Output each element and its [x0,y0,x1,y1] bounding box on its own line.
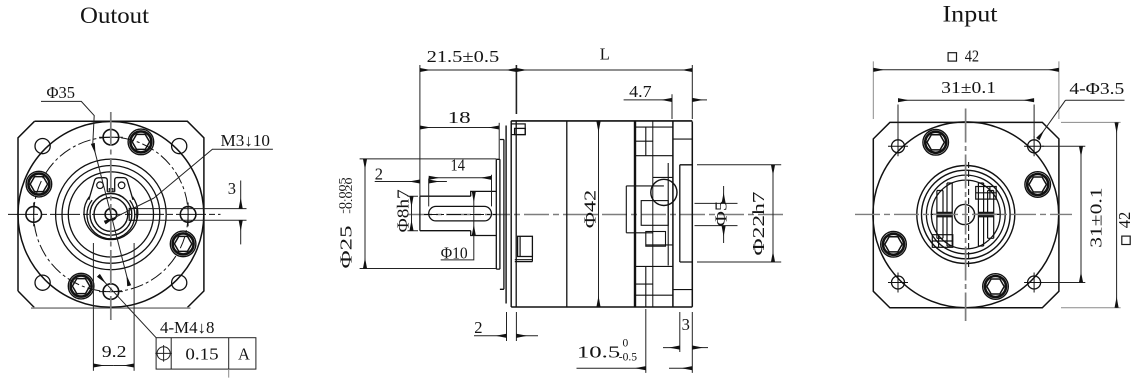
svg-text:-0.020: -0.020 [344,177,354,214]
block horizontals [937,212,994,216]
tolerance frame [156,338,256,369]
corner hole TL [35,139,50,154]
circle r48.9 [62,166,160,264]
svg-text:Φ22h7: Φ22h7 [749,192,768,256]
circlip ear hole left [97,182,104,189]
dim 31 right line [1080,146,1082,282]
internal vertical 652.8 [652,122,654,307]
hex screw right-upper [1025,172,1051,198]
circle d25 boss [56,159,167,270]
corner hole TR [172,139,187,154]
dim phi22h7 ext [697,165,781,262]
svg-text:Φ8h7: Φ8h7 [394,189,413,232]
label 31 top [941,78,996,97]
M4 hole top [103,129,119,145]
bottom notch [518,236,533,256]
hex screw top-left [923,130,949,156]
label 31 right rotated [1087,188,1106,248]
dim 14 line [429,177,492,179]
coupling top line [626,186,664,233]
circle r39.4 [926,175,1005,254]
label sq42 top [948,46,979,65]
circlip inner arc [87,200,135,239]
svg-text:Φ42: Φ42 [580,190,599,228]
svg-text:31±0.1: 31±0.1 [941,78,996,97]
body circle [873,122,1059,308]
hex screw TR [128,129,154,155]
M4 hole right [180,207,196,223]
dashed gear line vertical [968,162,970,267]
label phi35 [47,83,76,102]
dim 3 line [663,347,680,349]
dim 21.5 ext left / shaft end line [419,65,421,196]
dim phi8h7 line [411,196,413,231]
vertical centerline [110,112,112,320]
dim sq42 top ext [873,61,1059,119]
label A [238,344,250,363]
label phi8h7 rotated [394,189,413,232]
section divider 3 [645,127,647,307]
bottom-left box [932,235,953,248]
svg-text:Input: Input [943,2,999,27]
svg-text:18: 18 [448,108,471,127]
rear flange left face [672,122,674,307]
bearing circle r44.3 [922,170,1011,259]
dim 4-phi3.5 leader [1066,99,1125,101]
dim 2 top: ext [428,179,430,207]
boss circle r49 [917,166,1015,264]
body circle [18,121,204,307]
circlip ear hole right [118,182,125,189]
svg-text:Φ35: Φ35 [47,83,76,102]
dim 2 bottom ext [507,312,517,341]
phi25 boss [496,159,500,269]
svg-text:A: A [238,344,250,363]
dim phi35 diameter line [93,143,129,285]
bolt circle dash-dot [34,137,188,291]
dim 31 top ext [898,105,1034,138]
front plate face [505,126,507,304]
horizontal centerline [855,213,1072,215]
flange bottom edge (gray) [31,307,191,309]
dim 10.5 ext [646,309,693,373]
dim phi5 line [723,186,725,203]
right view dimensions [873,46,1134,307]
coupling hub box [641,201,668,226]
dim 18 line [420,127,499,129]
svg-text:2: 2 [474,318,482,337]
center circle M3 [105,209,117,221]
svg-text:Φ10: Φ10 [441,244,468,263]
horizontal centerline [407,214,783,216]
svg-text:Φ25: Φ25 [337,226,356,269]
slot centerline [424,214,497,216]
label phi42 rotated [580,190,599,228]
dim phi25 line [364,159,366,269]
dim M3 leader [154,149,273,198]
label sq42 right rotated [1115,212,1134,245]
block dark squares [938,213,952,217]
input shaft hole [954,204,974,224]
svg-text:4-M4↓8: 4-M4↓8 [160,318,214,337]
dim phi22h7 line [772,165,774,262]
dim 31 top line [898,99,1034,101]
shaft collar [471,191,497,235]
corner hole TR [1024,136,1044,156]
position symbol [157,347,170,360]
internal vertical 668.2 [667,163,669,266]
corner hole BL [888,273,908,293]
shaft circle d8 [94,198,128,232]
top-right box [976,187,997,200]
svg-text:Φ5: Φ5 [712,201,731,227]
output shaft [420,196,471,231]
hex screw left-upper [26,171,52,197]
dim phi5 ext [695,203,738,225]
label 4-phi3.5 [1069,79,1124,98]
svg-text:42: 42 [965,46,979,65]
middle view dimensions [337,44,782,373]
svg-text:10.5: 10.5 [577,342,620,361]
label 9.2 [102,342,127,361]
label 0.15 [185,344,218,363]
label 14 [451,155,465,174]
dim L right ext [691,65,693,119]
dim 4.7 line [624,99,672,101]
svg-text:4.7: 4.7 [629,82,651,101]
circlip outer arc [84,197,138,240]
flange square outline [18,121,204,307]
hex screw left-lower [881,232,907,258]
dim 3 ext [679,312,681,352]
label 2 top [375,165,383,184]
dim 9.2 line [93,365,113,367]
title Outout [80,3,150,28]
label 3 [228,179,236,198]
svg-text:L: L [600,44,610,63]
front plate rear face [515,121,517,307]
dim 21.5 line [420,69,517,71]
left block verticals [937,183,952,246]
hex screw bottom-right [983,274,1009,300]
svg-text:9.2: 9.2 [102,342,127,361]
label 4-M4 [160,318,214,337]
dim 4-M4 leader [98,275,156,337]
label phi10 [441,244,468,263]
keyway rect right of center [129,208,137,220]
svg-text:3: 3 [228,179,236,198]
dim 9.2 extension lines [92,243,94,371]
circlip right ear [115,178,133,200]
dim 14 ext right [491,175,493,207]
corner hole TL [888,136,908,156]
top notch [511,124,525,135]
small box below hub [646,232,666,247]
dim phi42 line [598,122,600,307]
svg-text:3: 3 [682,315,690,334]
dim 10.5 line [577,367,646,369]
M4 hole left [26,207,42,223]
dim phi8h7 ext stubs [408,196,419,231]
dim 4.7 ext [671,94,673,119]
horizontal centerline [8,213,221,215]
dim 3 extension lines [137,208,246,210]
svg-text:21.5±0.5: 21.5±0.5 [427,47,500,66]
corner hole BR [1024,273,1044,293]
dim 3 line [240,181,242,209]
center horizontal black segments [931,213,1000,215]
title Input [943,2,999,27]
circlip notch [107,189,114,192]
label 2 bottom [474,318,482,337]
dim phi25 ext lines [360,159,497,269]
dim phi10 leader [441,236,474,260]
svg-text:42: 42 [1115,212,1134,229]
svg-text:0: 0 [623,338,629,350]
svg-text:M3↓10: M3↓10 [221,131,271,150]
flange corner lines [673,139,692,290]
circle d10 [90,194,132,236]
flange square outline [873,122,1059,307]
svg-text:Outout: Outout [80,3,150,28]
dim 21.5/L shared ext [515,65,517,114]
right block verticals [978,183,993,246]
M4 hole bottom [103,284,119,300]
dim 18 ext right [498,123,500,159]
vertical centerline [965,109,967,322]
label 18 [448,108,471,127]
keyway slot [429,206,492,221]
label 10.5 [577,338,637,364]
body outline [511,121,692,307]
plate body joint [510,121,512,307]
dim 2 bottom line [474,335,507,337]
svg-text:31±0.1: 31±0.1 [1087,188,1106,248]
label phi22h7 rotated [749,192,768,256]
dim 31 right ext [1042,146,1085,282]
label phi25 rotated [337,226,356,269]
svg-text:2: 2 [375,165,383,184]
clamp screw circle [651,179,677,205]
label L [600,44,610,63]
dim sq42 top line [873,69,1059,71]
section divider 2 [634,122,636,307]
dim 2 top line [375,181,420,183]
hex screw bottom-left [68,273,94,299]
svg-text:0.15: 0.15 [185,344,218,363]
hex screw right-lower [170,231,196,257]
label phi5 rotated [712,201,731,227]
dim sq42 right ext [1061,122,1121,307]
rear flange right face [691,122,693,307]
dim L line [516,69,692,71]
label 21.5 [427,47,500,66]
circle r34.4 [931,180,1000,249]
svg-text:4-Φ3.5: 4-Φ3.5 [1069,79,1124,98]
intermediate ring [500,140,504,290]
input boss phi22 [680,165,693,262]
dim sq42 right line [1116,122,1118,307]
left view dimensions [41,83,273,378]
corner hole BL [35,275,50,290]
corner hole BR [172,275,187,290]
circlip left ear [89,178,108,200]
label 3 [682,315,690,334]
label 4.7 [629,82,651,101]
svg-text:-0.5: -0.5 [619,351,638,363]
label M3 [221,131,271,150]
internal horizontals [634,127,673,295]
label phi25 tolerance [337,177,354,214]
section divider 1 [566,122,568,307]
svg-text:14: 14 [451,155,465,174]
circle r42.6 [68,172,153,257]
